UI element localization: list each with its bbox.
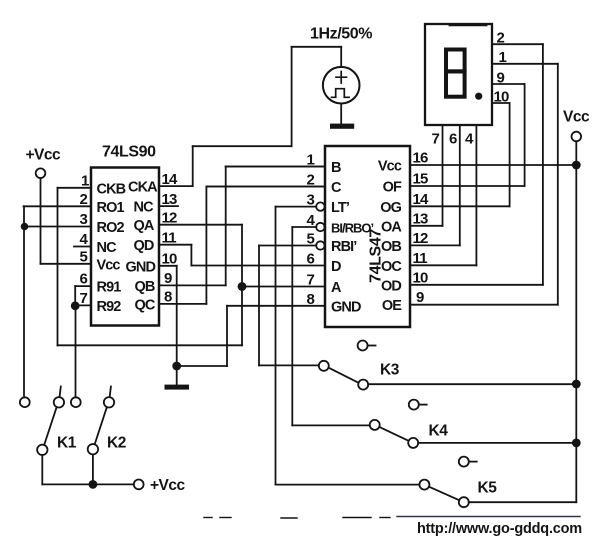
svg-text:11: 11 — [413, 250, 428, 267]
svg-text:74LS90: 74LS90 — [102, 144, 156, 161]
wire ground to LS47 GND horizontal — [177, 365, 227, 367]
wire QC up vertical — [205, 187, 207, 304]
wire CKB to QA bottom horizontal — [58, 344, 243, 346]
svg-text:K5: K5 — [478, 480, 498, 497]
wire CKA drop vertical — [192, 146, 194, 186]
U1 pin 8 QC stub — [159, 303, 206, 305]
svg-text:4: 4 — [465, 131, 474, 148]
svg-text:Vcc: Vcc — [97, 257, 121, 273]
wire clock stem bottom — [340, 104, 342, 124]
ground bar under clock — [330, 124, 354, 129]
wire QB to pin1 B — [226, 166, 325, 168]
display pin 10 stub — [492, 102, 510, 104]
svg-text:6: 6 — [307, 251, 315, 268]
dashed border segment a — [204, 517, 212, 519]
node K2 junction — [89, 480, 98, 489]
svg-text:OE: OE — [382, 298, 402, 314]
svg-text:7: 7 — [432, 131, 440, 148]
svg-text:12: 12 — [413, 230, 429, 247]
svg-text:K3: K3 — [380, 362, 400, 379]
svg-text:13: 13 — [162, 191, 178, 208]
svg-text:QD: QD — [134, 238, 154, 254]
switch K1 lever — [44, 407, 56, 445]
svg-text:9: 9 — [416, 289, 424, 306]
wire LT to K5 horizontal — [276, 484, 420, 486]
U1 pin 1 CKB stub — [58, 187, 92, 189]
wire K3 to Vcc bus — [368, 383, 576, 385]
svg-text:1Hz/50%: 1Hz/50% — [310, 26, 372, 43]
wire QA to pin7 A — [242, 286, 325, 288]
U2 pin 16 Vcc stub — [410, 164, 576, 166]
U1 pin 4 NC stub — [74, 246, 91, 248]
wire Vcc bus vertical — [575, 141, 577, 502]
svg-text:QA: QA — [134, 218, 155, 234]
svg-text:B: B — [331, 160, 341, 176]
switch K1 lower contact — [37, 445, 47, 455]
+Vcc terminal top left — [36, 168, 46, 178]
svg-text:16: 16 — [413, 150, 429, 167]
U2 pin 4 BI/RBO' stub — [292, 226, 316, 228]
svg-text:3: 3 — [80, 211, 88, 228]
svg-text:K1: K1 — [57, 435, 77, 452]
node Vcc / pin16 junction — [572, 161, 581, 170]
wire clock top horizontal — [292, 46, 342, 48]
U1 pin 10 GND stub — [159, 265, 177, 267]
switch K4 lever — [380, 427, 409, 441]
+Vcc terminal bottom — [134, 480, 144, 490]
U2 pin 13 OA stub — [410, 225, 443, 227]
svg-text:R91: R91 — [97, 280, 122, 296]
dashed border segment e — [380, 517, 390, 519]
wire LT' net vertical — [275, 207, 277, 485]
svg-text:http://www.go-gddq.com: http://www.go-gddq.com — [417, 521, 582, 537]
U1 pin 13 NC stub — [159, 205, 178, 207]
svg-text:14: 14 — [413, 191, 430, 208]
svg-text:Vcc: Vcc — [563, 109, 590, 126]
svg-text:GND: GND — [126, 259, 156, 275]
svg-text:9: 9 — [164, 270, 172, 287]
dashed border segment b — [220, 517, 231, 519]
svg-text:BI/RBO’: BI/RBO’ — [331, 221, 374, 236]
wire display pin2 to OD vertical — [542, 44, 544, 285]
svg-text:8: 8 — [164, 289, 172, 306]
clock plus mark — [336, 72, 347, 84]
svg-text:9: 9 — [497, 69, 505, 86]
node K3 bus junction — [572, 380, 581, 389]
U2 pin 5 bubble — [316, 241, 324, 249]
svg-text:1: 1 — [81, 173, 89, 190]
wire BI/RBO' net vertical — [291, 227, 293, 425]
U2 pin 9 OE stub — [410, 304, 558, 306]
wire RBI to K3 horizontal — [259, 364, 319, 366]
svg-text:OD: OD — [381, 278, 401, 294]
U1 pin 14 CKA stub — [159, 185, 193, 187]
terminal contact right of K1 — [71, 397, 81, 407]
wire RBI' net vertical — [258, 246, 260, 366]
ground bar under U1 — [165, 385, 190, 390]
switch K4 left contact — [370, 420, 380, 430]
node K4 bus junction — [572, 439, 581, 448]
switch K1 upper contact — [54, 397, 64, 407]
wire LS47 GND vertical — [226, 306, 228, 366]
svg-text:K4: K4 — [429, 423, 449, 440]
U1 pin 6 R91 stub — [75, 285, 91, 287]
display pin 1 stub — [492, 63, 558, 65]
svg-text:4: 4 — [80, 231, 89, 248]
U1 pin 3 RO2 stub — [24, 226, 92, 228]
switch K2 lever — [95, 407, 107, 444]
switch K3 open contact — [358, 341, 368, 351]
svg-text:1: 1 — [499, 49, 507, 66]
U2 pin 8 GND stub — [227, 305, 325, 307]
switch K2 lower contact — [88, 444, 98, 454]
switch K3 lever — [329, 368, 358, 383]
svg-text:5: 5 — [80, 249, 88, 266]
wire clock to CKA horizontal — [193, 145, 292, 147]
U1 pin 9 QB stub — [159, 284, 226, 286]
U2 pin 2 C stub — [206, 186, 325, 188]
wire clock stem top — [340, 47, 342, 67]
svg-text:LT’: LT’ — [331, 200, 350, 216]
svg-text:7: 7 — [307, 272, 315, 289]
svg-text:NC: NC — [134, 200, 155, 216]
svg-text:10: 10 — [162, 251, 178, 268]
U2 pin 11 OC stub — [410, 264, 476, 266]
svg-text:OF: OF — [383, 180, 402, 196]
svg-text:5: 5 — [307, 231, 315, 248]
svg-text:6: 6 — [449, 131, 457, 148]
svg-text:+Vcc: +Vcc — [26, 147, 62, 164]
switch K1 upper tick — [60, 387, 61, 397]
switch K5 lever — [429, 487, 459, 500]
display pin 2 stub — [492, 43, 543, 45]
switch K5 left contact — [419, 480, 429, 490]
seven-segment display DS1 — [425, 24, 492, 125]
svg-text:15: 15 — [413, 171, 429, 188]
svg-text:RO2: RO2 — [97, 220, 125, 236]
svg-text:7: 7 — [80, 290, 88, 307]
U2 pin 3 LT' stub — [276, 206, 317, 208]
wire RO net down to K contact — [23, 206, 25, 397]
dashed border segment c — [281, 517, 297, 519]
svg-text:14: 14 — [162, 171, 179, 188]
svg-text:2: 2 — [80, 191, 88, 208]
svg-text:OC: OC — [381, 259, 402, 275]
node RO1/RO2 junction — [21, 223, 29, 231]
switch K3 moving contact — [358, 380, 368, 390]
U1 pin 11 QD stub — [159, 244, 191, 246]
switch K4 open contact — [409, 400, 419, 410]
display top edge thick mark — [450, 23, 486, 26]
wire bottom +Vcc horizontal — [42, 483, 134, 485]
wire K2 down vertical — [92, 454, 94, 484]
switch K4 open contact tick — [419, 404, 427, 406]
svg-text:QC: QC — [135, 297, 156, 313]
U1 pin 2 RO1 stub — [24, 205, 92, 207]
svg-text:Vcc: Vcc — [378, 159, 402, 175]
wire GND90 down vertical — [176, 266, 178, 385]
wire BI to K4 horizontal — [292, 424, 369, 426]
dashed border segment d — [343, 517, 371, 519]
svg-text:R92: R92 — [97, 299, 122, 315]
svg-text:CKA: CKA — [128, 180, 158, 196]
switch K5 moving contact — [459, 497, 469, 507]
wire display pin4 to OC vertical — [475, 125, 477, 265]
svg-text:12: 12 — [162, 210, 178, 227]
svg-text:A: A — [331, 280, 342, 296]
U2 pin 5 RBI' stub — [259, 245, 316, 247]
svg-text:1: 1 — [307, 152, 315, 169]
U2 pin 4 bubble — [316, 223, 324, 231]
svg-text:RBI’: RBI’ — [331, 239, 357, 255]
IC U2 74LS47 body — [325, 146, 410, 327]
node ground junction — [172, 362, 181, 371]
U2 pin 1 B stub — [226, 166, 325, 168]
display digit 8 lower square — [446, 71, 465, 96]
switch K3 open contact tick — [368, 345, 376, 347]
node QA junction — [238, 282, 247, 291]
svg-text:3: 3 — [307, 192, 315, 209]
U1 pin 7 R92 stub — [75, 304, 91, 306]
clock source U3 1Hz/50% — [323, 67, 360, 104]
clock square-wave mark — [332, 89, 350, 98]
svg-text:+Vcc: +Vcc — [150, 477, 186, 494]
wire K1 down vertical — [41, 455, 43, 484]
dashed border segment f — [397, 516, 580, 518]
wire R91 to R92 tie — [74, 286, 76, 305]
terminal contact left of K1 — [20, 397, 30, 407]
wire display pin10 to OG vertical — [509, 103, 511, 206]
display digit 8 upper square — [446, 50, 465, 72]
wire K4 to Vcc bus — [418, 442, 576, 444]
svg-text:OB: OB — [381, 239, 401, 255]
svg-text:RO1: RO1 — [97, 200, 125, 216]
svg-text:2: 2 — [307, 172, 315, 189]
svg-text:6: 6 — [80, 271, 88, 288]
IC U1 74LS90 body — [91, 168, 159, 326]
switch K5 open contact — [459, 457, 469, 467]
svg-text:OA: OA — [381, 219, 402, 235]
switch K2 upper contact — [104, 397, 114, 407]
U2 pin 10 OD stub — [410, 284, 543, 286]
svg-text:K2: K2 — [107, 435, 126, 452]
wire display pin6 to OB vertical — [459, 125, 461, 245]
wire CKB left vertical — [57, 188, 59, 345]
svg-text:QB: QB — [135, 279, 155, 295]
switch K5 open contact tick — [469, 461, 477, 463]
switch K3 left contact — [319, 361, 329, 371]
wire R9 net down to K contact — [75, 306, 77, 398]
svg-text:NC: NC — [97, 240, 118, 256]
switch K4 moving contact — [408, 438, 418, 448]
svg-text:D: D — [331, 259, 341, 275]
wire QC to pin2 C — [206, 186, 325, 188]
Vcc terminal top right — [572, 132, 582, 142]
svg-text:11: 11 — [162, 230, 177, 247]
wire clock left vertical — [291, 47, 293, 146]
U1 pin 12 QA stub — [159, 224, 242, 226]
wire QD jog vertical — [190, 245, 192, 266]
wire K5 to Vcc bus — [469, 501, 577, 503]
node R92 junction — [71, 301, 80, 310]
svg-text:OG: OG — [380, 200, 401, 216]
svg-text:10: 10 — [494, 88, 510, 105]
U1 pin 5 Vcc stub — [41, 263, 92, 265]
svg-text:2: 2 — [497, 30, 505, 47]
wire QB up vertical — [225, 167, 227, 286]
wire +Vcc to pin5 — [40, 178, 42, 264]
U2 pin 15 OF stub — [410, 185, 525, 187]
U2 pin 14 OG stub — [410, 205, 510, 207]
svg-text:CKB: CKB — [97, 181, 126, 197]
display pin 9 stub — [492, 83, 525, 85]
svg-text:C: C — [331, 180, 342, 196]
wire display pin7 to OA vertical — [442, 125, 444, 226]
wire QA net vertical — [241, 225, 243, 346]
U2 pin 12 OB stub — [410, 244, 460, 246]
wire display pin1 to OE vertical — [557, 64, 559, 305]
U2 pin 3 bubble — [316, 202, 324, 210]
wire QD to pin6 D — [191, 265, 325, 267]
svg-text:13: 13 — [413, 210, 429, 227]
switch K2 upper tick — [110, 387, 111, 397]
display decimal point — [475, 93, 482, 100]
wire display pin9 to OF vertical — [524, 84, 526, 186]
svg-text:GND: GND — [331, 299, 361, 315]
svg-text:10: 10 — [413, 269, 429, 286]
